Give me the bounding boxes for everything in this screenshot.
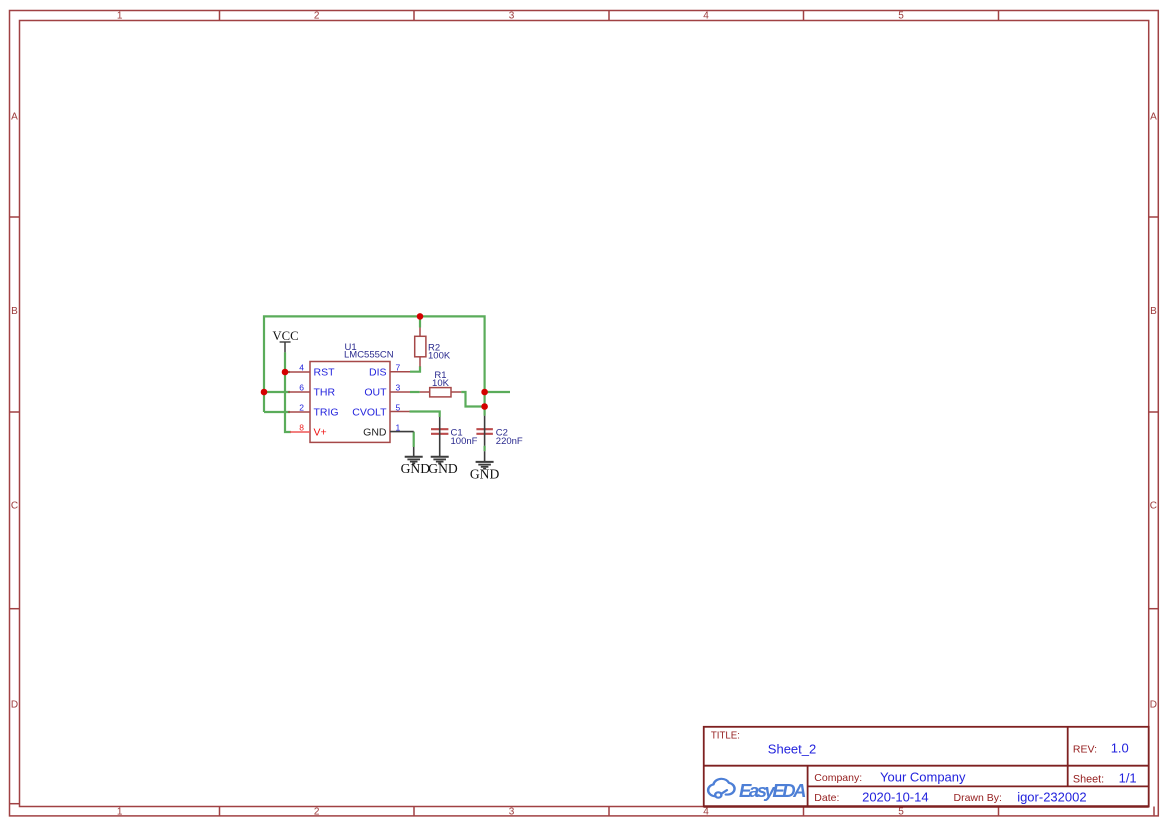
capacitor C2 [476,416,523,462]
svg-text:2020-10-14: 2020-10-14 [862,789,929,804]
junction dot R2 top [417,313,424,320]
svg-text:6: 6 [299,383,304,393]
svg-text:Sheet_2: Sheet_2 [768,741,816,756]
svg-text:C: C [11,501,18,512]
wire: OUT stub right [485,391,510,393]
svg-text:A: A [11,112,18,123]
pin 2 lead [288,411,310,413]
ground flag 1 (pin1) [401,447,431,476]
svg-text:220nF: 220nF [496,436,523,447]
pin names [314,366,388,438]
svg-text:Company:: Company: [814,772,862,784]
pin numbers [299,363,400,433]
pin 8 lead [290,431,310,433]
junction dot OUT rail [481,389,488,396]
svg-text:4: 4 [703,806,709,817]
svg-text:4: 4 [703,11,709,22]
svg-text:Sheet:: Sheet: [1073,773,1104,785]
svg-text:TITLE:: TITLE: [711,731,740,742]
wire: VCC top rail [264,316,485,415]
EasyEDA logo [708,779,806,801]
svg-text:B: B [11,306,18,317]
ground flag 2 (C1) [428,457,458,476]
wire: TRIG tap [264,411,290,413]
svg-text:GND: GND [470,467,500,482]
junction dot THR [261,389,268,396]
svg-text:2: 2 [299,403,304,413]
svg-text:Drawn By:: Drawn By: [954,792,1002,804]
svg-text:1: 1 [396,423,401,433]
VCC net flag [272,329,298,353]
svg-text:7: 7 [396,363,401,373]
title block frame [704,727,1149,807]
svg-text:VCC: VCC [272,329,298,343]
svg-text:5: 5 [898,11,904,22]
wire: RST tap [285,371,290,373]
svg-text:Your Company: Your Company [880,769,966,784]
svg-text:igor-232002: igor-232002 [1017,789,1086,804]
wire: THR tap [264,391,290,393]
svg-text:100K: 100K [428,351,451,362]
svg-text:5: 5 [898,806,904,817]
svg-text:LMC555CN: LMC555CN [344,349,394,360]
svg-text:B: B [1150,306,1157,317]
op-amp U1 body [310,362,390,443]
svg-text:THR: THR [314,386,336,398]
resistor R2 [415,328,451,367]
resistor R1 [420,370,462,397]
wire: VCC stem down to V+ [285,352,291,432]
wire: CVOLT to C1 [410,412,440,418]
svg-text:100nF: 100nF [451,436,478,447]
wire: GND pin elbow [413,432,415,447]
svg-text:8: 8 [299,423,304,433]
svg-text:GND: GND [363,426,387,438]
svg-text:V+: V+ [314,426,327,438]
svg-text:D: D [11,699,18,710]
capacitor C1 [431,417,478,456]
wire: OUT to R1 [410,391,420,393]
svg-text:C: C [1150,501,1157,512]
svg-text:A: A [1150,112,1157,123]
svg-text:RST: RST [314,366,336,378]
pin 3 lead [390,391,410,393]
title block bottom heavy line [704,805,1149,807]
svg-text:GND: GND [428,461,458,476]
svg-text:2: 2 [314,11,320,22]
junction dot R1 step [481,403,488,410]
wire: R2 top lead connection [419,316,421,327]
svg-text:1.0: 1.0 [1111,741,1129,756]
svg-text:CVOLT: CVOLT [352,406,387,418]
title block texts [711,731,1104,805]
svg-text:3: 3 [509,806,515,817]
svg-text:OUT: OUT [364,386,387,398]
wire: C2 bottom green segment [484,446,486,451]
svg-text:1/1: 1/1 [1119,771,1137,786]
pin 6 lead [288,391,310,393]
svg-text:5: 5 [396,403,401,413]
svg-text:1: 1 [117,806,123,817]
svg-text:10K: 10K [432,378,450,389]
pin 7 lead [390,371,410,373]
svg-text:TRIG: TRIG [314,406,339,418]
svg-text:EasyEDA: EasyEDA [739,780,807,801]
svg-text:2: 2 [314,806,320,817]
svg-text:Date:: Date: [814,792,839,804]
wire: R2 bottom to DIS [410,366,420,372]
svg-text:4: 4 [299,363,304,373]
pin 5 lead [390,411,410,413]
svg-text:3: 3 [509,11,515,22]
pin 1 lead [390,431,414,433]
svg-text:GND: GND [401,461,431,476]
pin 4 lead [288,371,310,373]
svg-text:REV:: REV: [1073,744,1097,756]
svg-text:DIS: DIS [369,366,387,378]
svg-text:3: 3 [396,383,401,393]
svg-text:1: 1 [117,11,123,22]
wire: R1 to right rail step [461,392,484,407]
ground flag 3 (C2) [470,462,500,482]
junction dot RST/VCC [282,369,289,376]
svg-text:D: D [1150,699,1157,710]
